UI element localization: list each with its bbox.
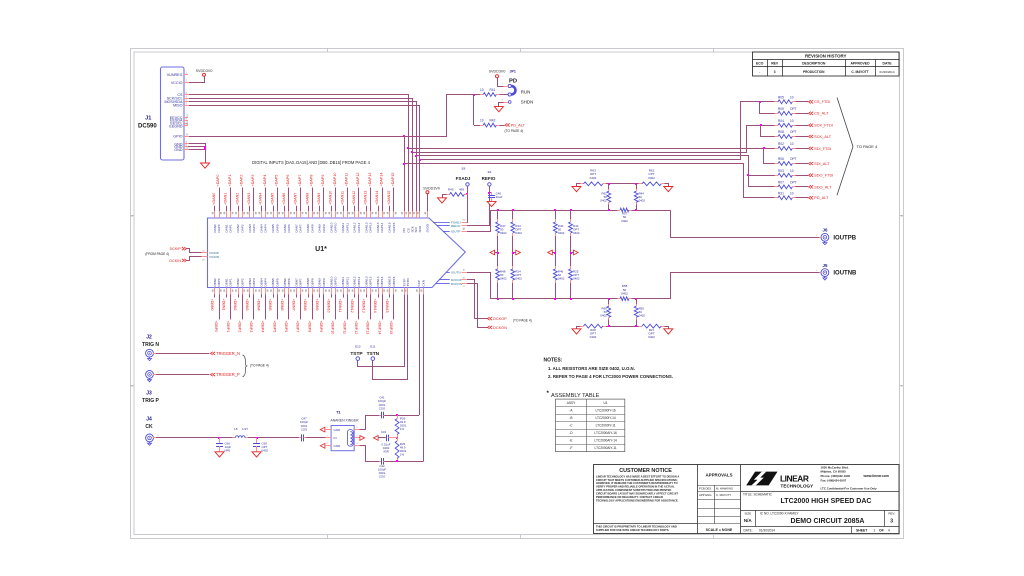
svg-text:R41: R41 (490, 88, 496, 92)
svg-text:«DBN1: «DBN1 (222, 299, 226, 311)
svg-text:«DAN13: «DAN13 (364, 191, 368, 205)
svg-text:VUNREG: VUNREG (167, 73, 183, 77)
svg-text:CK: CK (145, 424, 153, 430)
svg-text:(TO PAGE 4): (TO PAGE 4) (250, 363, 269, 367)
label digital inputs (252, 160, 370, 165)
svg-text:DBP1: DBP1 (229, 278, 233, 286)
capacitor C40 10uF (488, 191, 503, 201)
IC U1 LTC2000 (208, 218, 466, 288)
wire DCKOP out (467, 280, 488, 319)
wire to J5 (671, 270, 820, 298)
ground (JP1) (494, 107, 503, 112)
capacitor C66 10pF (216, 438, 231, 453)
wire C43 node (378, 437, 398, 439)
pin DBP9 (319, 278, 327, 332)
pin DAP3 (251, 175, 257, 233)
terminal E10 TSTP (350, 345, 363, 361)
pin DAN14 (375, 191, 380, 233)
connector J6 IOUTPB (819, 227, 857, 244)
resistor R08 OPT (766, 130, 808, 138)
svg-text:«DAP11: «DAP11 (344, 173, 348, 186)
svg-text:«DAP9: «DAP9 (321, 175, 325, 187)
svg-text:TECHNOLOGY: TECHNOLOGY (781, 484, 814, 489)
svg-text:TRIG P: TRIG P (142, 398, 159, 404)
pin DBP15 (389, 276, 397, 334)
wire R42 feed (473, 95, 475, 126)
ground (R28) (572, 329, 581, 334)
svg-text:2. REFER TO PAGE 4 FOR LTC2000: 2. REFER TO PAGE 4 FOR LTC2000 POWER CON… (548, 374, 673, 379)
svg-text:«DAP4: «DAP4 (263, 175, 267, 187)
svg-text:0402: 0402 (600, 314, 607, 318)
svg-text:SDO: SDO (418, 225, 422, 232)
svg-text:«DAN0: «DAN0 (212, 193, 216, 205)
svg-text:0402: 0402 (639, 199, 646, 203)
svg-text:SDI_ALT: SDI_ALT (814, 161, 830, 166)
svg-text:«DBP10: «DBP10 (331, 321, 335, 335)
svg-text:DAP6: DAP6 (287, 224, 291, 232)
svg-text:DCKOP: DCKOP (493, 317, 507, 321)
net label PD_ALT (809, 195, 830, 200)
svg-text:«DAN11: «DAN11 (340, 191, 344, 205)
svg-text:0402: 0402 (621, 291, 628, 295)
svg-text:DAP11: DAP11 (345, 223, 349, 233)
wire DCKIP (187, 249, 202, 253)
pin DBN14 (373, 276, 380, 312)
svg-text:0402: 0402 (558, 231, 565, 235)
resistor R59 50 (634, 299, 645, 327)
pin DAP8 (309, 175, 315, 233)
svg-text:EEGND: EEGND (169, 124, 182, 128)
svg-text:DAP4: DAP4 (264, 224, 268, 232)
svg-text:«DAN4: «DAN4 (259, 193, 263, 205)
resistor R63 OPT (577, 169, 607, 187)
svg-text:CKP: CKP (417, 280, 421, 286)
net label SDO_ALT (809, 184, 833, 189)
svg-text:NP0: NP0 (225, 449, 231, 453)
net label DCKIP (145, 247, 186, 256)
svg-text:DBP4: DBP4 (264, 278, 268, 286)
pin DBN0 (210, 278, 217, 311)
svg-text:-F: -F (569, 446, 572, 450)
svg-text:DCKIN: DCKIN (210, 255, 220, 259)
svg-text:«DBP0: «DBP0 (214, 321, 218, 333)
pin DAP15 (391, 173, 397, 233)
connector J2 TRIG N (142, 335, 159, 361)
svg-text:0402: 0402 (573, 277, 580, 281)
pin SDO (U1) (417, 211, 422, 232)
svg-text:APPROVALS: APPROVALS (706, 473, 733, 478)
svg-text:DAP13: DAP13 (369, 222, 373, 232)
svg-text:TRIGGER_N: TRIGGER_N (216, 351, 240, 356)
net label DCKOP (488, 317, 532, 323)
svg-text:«DAP12: «DAP12 (356, 173, 360, 187)
resistor R26 49.9 (395, 438, 407, 461)
svg-text:«DAP13: «DAP13 (368, 173, 372, 187)
pin DAN8 (305, 193, 310, 233)
svg-text:TITLE: SCHEMATIC: TITLE: SCHEMATIC (743, 492, 773, 496)
resistor R57 50 (618, 208, 632, 223)
pin DAP4 (263, 175, 269, 233)
svg-text:«DBP15: «DBP15 (389, 321, 393, 335)
svg-text:VCCIO: VCCIO (171, 81, 183, 85)
svg-text:10: 10 (790, 119, 794, 123)
border frame (131, 49, 904, 539)
svg-text:«DBN13: «DBN13 (361, 299, 365, 313)
pin DBP12 (354, 276, 362, 334)
pin DBP3 (249, 278, 257, 332)
svg-text:DAP12: DAP12 (357, 222, 361, 232)
svg-text:«DAP15: «DAP15 (391, 173, 395, 187)
svg-text:DCKON: DCKON (493, 326, 507, 330)
ground (R63) (572, 187, 581, 192)
svg-text:IC NO. LTC2000-X FAMILY: IC NO. LTC2000-X FAMILY (760, 512, 800, 516)
svg-text:«DAP5: «DAP5 (275, 175, 279, 187)
pin TSTP (U1) (401, 279, 406, 295)
power SVDD3V0 (JP1) (489, 70, 506, 78)
svg-text:0402: 0402 (558, 277, 565, 281)
svg-text:«DBP4: «DBP4 (261, 321, 265, 333)
pin DAP13 (368, 173, 374, 233)
svg-text:«DAN6: «DAN6 (282, 193, 286, 205)
svg-text:LTC Confidential-For Customer: LTC Confidential-For Customer Use Only (821, 486, 878, 490)
net arrow (T1 pin5 out) (360, 436, 365, 441)
svg-text:DBP11: DBP11 (345, 277, 349, 287)
svg-text:DC590: DC590 (138, 123, 157, 129)
svg-text:Phone: (408)432-1900: Phone: (408)432-1900 (821, 474, 851, 478)
net label SCK_ALT (809, 134, 832, 139)
connector J3 TRIG P (142, 371, 159, 404)
svg-text:1%: 1% (400, 427, 405, 431)
to page 4 brace (triggers) (243, 355, 269, 377)
svg-text:SVDD3V0: SVDD3V0 (423, 186, 440, 190)
svg-text:APPLICATION. COMPONENT SUBSTI: APPLICATION. COMPONENT SUBSTITUTION AND … (596, 488, 671, 492)
wire PD to chip (404, 136, 406, 211)
svg-text:TECHNOLOGY APPLICATIONS ENGINE: TECHNOLOGY APPLICATIONS ENGINEERING FOR … (596, 498, 679, 502)
resistor R06 OPT (766, 157, 808, 165)
pin DAN3 (247, 193, 252, 233)
terminal E8 FSADJ (456, 167, 471, 187)
wire REFIO net (467, 187, 491, 226)
svg-text:0402: 0402 (590, 176, 597, 180)
resistor R40 50 (553, 210, 564, 257)
wire C42 to CKN (384, 460, 423, 462)
svg-text:-E: -E (569, 439, 572, 443)
svg-text:(FROM PAGE 4): (FROM PAGE 4) (145, 252, 169, 256)
svg-text:0402: 0402 (648, 335, 655, 339)
pin CS (U1) (405, 211, 410, 232)
pin DAN0 (212, 193, 217, 233)
svg-text:R02: R02 (778, 142, 784, 146)
svg-text:0402: 0402 (639, 314, 646, 318)
transformer T1 ANAREN XINGER (326, 410, 360, 451)
wire T1 pin4 down (360, 446, 380, 462)
pin DCKON (U1) (436, 282, 466, 288)
pin DAP12 (356, 173, 362, 233)
svg-text:«DAP3: «DAP3 (251, 175, 255, 187)
svg-text:PCB DES.: PCB DES. (699, 486, 712, 490)
pin DBN12 (350, 276, 357, 312)
pin DBP6 (284, 278, 292, 332)
svg-text:DBP15: DBP15 (392, 276, 396, 286)
svg-text:FSADJ: FSADJ (456, 176, 471, 181)
svg-text:DIGITAL INPUTS [DA0..DA15] AND: DIGITAL INPUTS [DA0..DA15] AND [DB0..DB1… (252, 160, 370, 165)
svg-text:10: 10 (480, 118, 484, 122)
customer notice text (596, 468, 679, 532)
svg-text:«DAN8: «DAN8 (305, 193, 309, 205)
svg-text:SCK_FTDI: SCK_FTDI (814, 123, 833, 128)
svg-text:CIRCUIT BOARD LAYOUT MAY SIGNI: CIRCUIT BOARD LAYOUT MAY SIGNIFICANTLY A… (596, 492, 678, 496)
resistor R25 OPT (569, 257, 580, 299)
wire C41 to CKP (384, 414, 419, 416)
resistor R60 50 (600, 299, 610, 327)
net label TRIGGER_P (211, 372, 241, 377)
pin DBP13 (366, 276, 374, 334)
svg-text:«DBN5: «DBN5 (268, 299, 272, 311)
pin DBN2 (233, 278, 240, 311)
svg-text:OPT: OPT (790, 181, 797, 185)
svg-text:«DAN10: «DAN10 (329, 191, 333, 205)
pin IOUTP (U1) (443, 228, 466, 234)
notes text (544, 358, 674, 379)
pin PD (U1) (401, 211, 406, 232)
svg-text:«DBP2: «DBP2 (237, 321, 241, 333)
svg-text:DAP8: DAP8 (310, 224, 314, 232)
svg-text:DEMO CIRCUIT 2085A: DEMO CIRCUIT 2085A (791, 518, 865, 525)
wire C47 to T1 (306, 437, 328, 439)
resistor R31 10 (766, 191, 808, 199)
resistor R24 OPT (511, 257, 522, 299)
svg-text:DCKIN: DCKIN (169, 259, 181, 263)
wire DCKIN (187, 257, 202, 261)
svg-text:DAP0: DAP0 (217, 224, 221, 232)
address text (821, 465, 890, 490)
resistor R45 499 (443, 187, 468, 197)
svg-text:-B: -B (569, 416, 572, 420)
pin DAN9 (317, 193, 322, 233)
wire tap SDI_ALT (764, 149, 767, 164)
pin DBN4 (257, 278, 264, 311)
svg-text:SDO_ALT: SDO_ALT (814, 184, 832, 189)
net label SDO_FTDI (809, 173, 834, 178)
pin DAP11 (344, 173, 350, 233)
svg-text:1%: 1% (400, 453, 405, 457)
pin DAP0 (216, 175, 222, 233)
svg-text:«DBN7: «DBN7 (292, 299, 296, 311)
pin DBN8 (303, 278, 310, 311)
svg-text:DAP5: DAP5 (275, 224, 279, 232)
resistor R09 OPT (766, 107, 808, 115)
net label TRIGGER_N (211, 351, 241, 356)
connector J4 CK (145, 417, 159, 446)
svg-text:E9: E9 (488, 170, 492, 174)
svg-text:01/30/2014: 01/30/2014 (879, 70, 894, 74)
svg-text:ECO: ECO (756, 62, 764, 66)
svg-text:0402: 0402 (600, 199, 607, 203)
svg-text:R45: R45 (448, 187, 454, 191)
svg-text:X5R: X5R (383, 450, 389, 454)
wire TSTN (373, 295, 408, 380)
resistor R03 10 (766, 169, 808, 177)
pin DAN4 (258, 193, 263, 233)
svg-text:SCK_ALT: SCK_ALT (814, 134, 832, 139)
svg-text:COG: COG (301, 427, 308, 431)
svg-text:1. ALL RESISTORS ARE SIZE 0402: 1. ALL RESISTORS ARE SIZE 0402, U.O.N. (548, 366, 635, 371)
svg-text:«DAP6: «DAP6 (286, 175, 290, 187)
svg-text:«DBN8: «DBN8 (303, 299, 307, 311)
svg-text:PD_ALT: PD_ALT (814, 195, 829, 200)
net label SCK_FTDI (809, 123, 833, 128)
pin DAP2 (240, 175, 246, 233)
svg-text:0402: 0402 (515, 277, 522, 281)
svg-text:TSTN: TSTN (406, 278, 410, 286)
svg-text:CS_ALT: CS_ALT (814, 111, 829, 116)
ground (R27) (664, 329, 673, 334)
svg-text:«DAN12: «DAN12 (352, 191, 356, 205)
svg-text:SIZE: SIZE (744, 512, 751, 516)
svg-text:R03: R03 (778, 169, 784, 173)
pin DBP2 (237, 278, 245, 332)
svg-text:«DAP0: «DAP0 (216, 175, 220, 187)
svg-text:REV: REV (771, 62, 779, 66)
svg-text:«DAN1: «DAN1 (224, 193, 228, 205)
svg-text:SUPPLIED FOR USE WITH LINEAR T: SUPPLIED FOR USE WITH LINEAR TECHNOLOGY … (596, 528, 670, 532)
svg-text:-: - (759, 70, 760, 74)
resistor R28 OPT (577, 324, 639, 339)
svg-text:10: 10 (790, 191, 794, 195)
svg-text:«DBN6: «DBN6 (280, 299, 284, 311)
ground (R45) (438, 198, 447, 203)
net arrow (T1 pin1) (320, 427, 325, 432)
svg-text:IOUTNB: IOUTNB (833, 271, 857, 277)
wire VCCIO to SVDD3V0 (189, 77, 205, 83)
pin DBP7 (296, 278, 304, 332)
svg-text:«DAP1: «DAP1 (228, 175, 232, 187)
svg-text:1nH: 1nH (242, 427, 248, 431)
net label CS_FTDI (809, 99, 831, 104)
svg-text:«DAN7: «DAN7 (294, 193, 298, 205)
pin DBN7 (292, 278, 299, 311)
pin DAN2 (235, 193, 240, 233)
pin DAN7 (293, 193, 298, 233)
svg-text:«DAP2: «DAP2 (240, 175, 244, 187)
wire CKN down (423, 294, 425, 461)
svg-text:DBP3: DBP3 (252, 278, 256, 286)
svg-text:«DAN3: «DAN3 (247, 193, 251, 205)
svg-text:0402: 0402 (621, 219, 628, 223)
svg-text:Milpitas, CA 95035: Milpitas, CA 95035 (821, 469, 847, 473)
wire tap SDI row (407, 147, 766, 149)
svg-text:E11: E11 (370, 345, 375, 349)
svg-text:REV.: REV. (888, 512, 895, 516)
svg-text:DBP6: DBP6 (287, 278, 291, 286)
svg-text:GND: GND (334, 444, 342, 448)
svg-text:CKN: CKN (422, 280, 426, 287)
wire tap SCK row (411, 124, 767, 153)
resistor R23 OPT (511, 210, 522, 257)
wire tap SDO row (415, 155, 767, 187)
pin FSADJ (U1) (433, 220, 466, 225)
ground (J1) (201, 163, 210, 168)
pin DBP8 (307, 278, 315, 332)
pin SDI (U1) (413, 211, 418, 232)
resistor R43 OPT (569, 210, 580, 257)
pin DBN5 (268, 278, 275, 311)
svg-text:«DAN15: «DAN15 (387, 191, 391, 205)
pin REFIO (U1) (437, 224, 466, 230)
svg-text:0402: 0402 (262, 449, 269, 453)
svg-text:J3: J3 (146, 391, 152, 397)
wire SVDD3V0 to U1 (427, 194, 429, 212)
svg-text:IOUTN: IOUTN (451, 270, 461, 274)
pin DBN10 (327, 276, 334, 312)
svg-text:COG: COG (379, 406, 386, 410)
wire IOUTP bus (467, 209, 671, 232)
svg-text:«DBN2: «DBN2 (233, 299, 237, 311)
pin DBP11 (342, 277, 350, 334)
svg-text:«DBP13: «DBP13 (366, 321, 370, 335)
svg-text:PD_ALT: PD_ALT (511, 122, 526, 127)
svg-text:L8: L8 (234, 427, 238, 431)
wire tap CS_ALT (760, 102, 767, 114)
svg-text:0402: 0402 (648, 176, 655, 180)
svg-text:DATE:: DATE: (744, 528, 753, 532)
pin DAP6 (286, 175, 292, 233)
svg-text:DAP14: DAP14 (380, 222, 384, 232)
svg-text:SDO_FTDI: SDO_FTDI (814, 173, 833, 178)
svg-text:ANAREN XINGER: ANAREN XINGER (330, 418, 359, 422)
pin DAN6 (282, 193, 287, 233)
pin DAN5 (270, 193, 275, 233)
resistor R44 50 (634, 184, 645, 210)
pin DBN11 (338, 276, 345, 312)
capacitor C65 OPT (253, 438, 268, 453)
resistor R07 OPT (766, 181, 808, 189)
pin DBN13 (361, 276, 368, 312)
svg-text:DBP10: DBP10 (334, 276, 338, 286)
svg-text:GND: GND (334, 428, 342, 432)
pin DBN1 (222, 278, 229, 311)
svg-text:0402: 0402 (500, 277, 507, 281)
svg-text:J2: J2 (146, 335, 152, 341)
title rows (741, 492, 899, 534)
svg-text:R06: R06 (778, 157, 784, 161)
svg-text:M. HAWKINS: M. HAWKINS (716, 486, 733, 490)
pin DAN15 (387, 191, 392, 233)
net label DCKON (488, 326, 508, 330)
resistor R48 50 (496, 257, 507, 299)
pin DAP5 (275, 175, 281, 233)
svg-text:CUSTOMER NOTICE: CUSTOMER NOTICE (619, 468, 672, 474)
svg-text:DBP13: DBP13 (369, 276, 373, 286)
wire J1 GND bus (188, 144, 206, 164)
svg-text:R09: R09 (778, 107, 784, 111)
revision history table (753, 52, 900, 76)
svg-text:E8: E8 (462, 167, 466, 171)
svg-text:DCKON: DCKON (451, 282, 462, 286)
svg-text:CS_FTDI: CS_FTDI (814, 99, 830, 104)
svg-text:«DBP5: «DBP5 (272, 321, 276, 333)
svg-text:«DAN5: «DAN5 (270, 193, 274, 205)
jumper JP1 PD (501, 70, 533, 105)
svg-text:Fax: (408)434-0507: Fax: (408)434-0507 (821, 478, 847, 482)
svg-text:IOUTP: IOUTP (451, 230, 460, 234)
wire SDI (189, 102, 417, 212)
svg-text:DBP9: DBP9 (322, 278, 326, 286)
wire IOUTN bus (467, 273, 671, 301)
capacitor C41 100pF (378, 396, 386, 419)
svg-text:«DBP8: «DBP8 (307, 321, 311, 333)
svg-text:DATE: DATE (883, 62, 893, 66)
